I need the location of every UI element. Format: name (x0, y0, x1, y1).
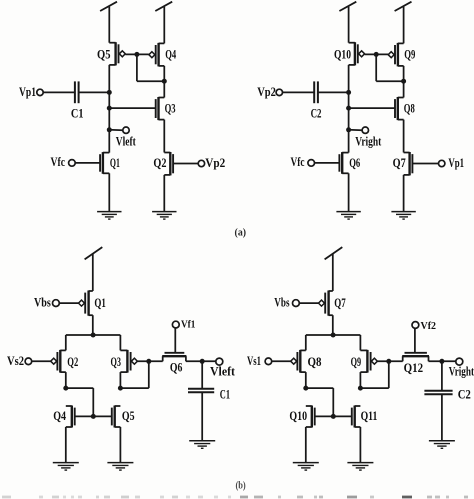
output terminal Vp2 (198, 156, 225, 170)
junction Q8 gate tap (346, 106, 351, 111)
transistor Q5 (109, 42, 125, 65)
wire gate of Q3 to Q6 (137, 360, 162, 362)
wire gate node down to drain of Q4 (137, 54, 164, 81)
wire Vp2 to capacitor C2 (283, 91, 315, 93)
label Q3 (111, 355, 122, 369)
junction Q3 drain node (118, 386, 123, 391)
power supply rail of circuit b-right (325, 247, 343, 291)
svg-text:Q8: Q8 (308, 355, 322, 369)
wire right rail Q9 drain to Q8 (403, 66, 405, 98)
junction Q8 drain node (303, 386, 308, 391)
capacitor C1 (188, 389, 214, 393)
label Q4 (165, 48, 177, 62)
label Q10 (334, 47, 351, 61)
label Q9 (351, 355, 362, 369)
wire Q5 source down (119, 427, 121, 463)
wire capacitor C2 to ground (441, 394, 443, 441)
svg-text:Q5: Q5 (122, 409, 135, 423)
svg-text:Q1: Q1 (94, 296, 106, 310)
wire gate of Q9 to Q12 (377, 360, 402, 362)
capacitor C1 (75, 81, 79, 103)
label Q11 (361, 409, 378, 423)
ground under Q1 (97, 212, 121, 220)
wire Vbs to gate of Q7 (299, 302, 318, 304)
junction mirror gate node (91, 414, 96, 419)
power supply rail of circuit b-left (85, 247, 103, 291)
label C2 (458, 388, 471, 402)
transistor Q3 (156, 97, 165, 120)
junction drain of Q4 (162, 79, 167, 84)
power supply rail (right) of circuit a-right (395, 2, 412, 44)
svg-text:Q7: Q7 (334, 296, 346, 310)
output terminal Vright (449, 358, 474, 379)
wire Vleft node down to capacitor C1 (201, 361, 203, 388)
label Q4 (53, 409, 66, 423)
svg-text:Vfc: Vfc (51, 155, 66, 169)
transistor Q2 (164, 152, 173, 175)
junction drain of Q9 (401, 79, 406, 84)
wire Q10 source down (305, 427, 307, 463)
input terminal Vp1 (19, 85, 43, 99)
input terminal Vfc of circuit a-left (51, 155, 76, 169)
label C2 (311, 107, 322, 121)
svg-text:Vp2: Vp2 (257, 85, 276, 99)
input terminal Vbs of circuit b-left (34, 295, 59, 309)
wire Q12 drain to Vright (429, 360, 456, 362)
wire Q7 source down (403, 175, 405, 212)
caption fragments (cut off at bottom edge) (2, 496, 468, 499)
svg-text:Vp2: Vp2 (205, 156, 225, 170)
wire mirror gates Q4 to Q5 (75, 415, 112, 417)
wire tap to gate of Q3 (109, 107, 155, 109)
junction Q3 gate node (146, 359, 151, 364)
caption (b) (235, 481, 246, 492)
terminal Vf1 (172, 320, 195, 331)
label Q1 (94, 296, 106, 310)
label Q8 (308, 355, 322, 369)
wire Vfc to gate of Q1 (75, 162, 100, 164)
ground under Q6 (336, 212, 360, 220)
junction Vright node (439, 359, 444, 364)
wire right rail Q8 to Q7 (403, 120, 405, 153)
wire Vs1 to gate of Q8 (272, 360, 291, 362)
svg-text:(a): (a) (235, 227, 247, 239)
power supply rail (right) of circuit a-left (155, 2, 172, 44)
wire Q3 drain down (119, 372, 121, 388)
output terminal Vleft (116, 127, 137, 148)
wire gate of Q7 to terminal Vp1 (412, 163, 438, 165)
transistor Q9 (388, 43, 403, 67)
junction Q9 gate node (386, 359, 391, 364)
svg-text:Q3: Q3 (165, 101, 176, 115)
label Q8 (404, 101, 415, 115)
ground under C2 (429, 441, 455, 449)
junction Q3 gate tap (107, 106, 112, 111)
transistor Q10 (306, 406, 315, 428)
label C1 (71, 107, 84, 121)
junction Vp1 node on left rail (107, 90, 112, 95)
junction gate node of Q5/Q4 (134, 52, 139, 57)
wire Q2 drain to mirror gate (66, 388, 94, 416)
wire left rail Q5 drain down to Q1 (108, 65, 110, 153)
transistor Q3 (120, 350, 137, 373)
svg-text:(b): (b) (235, 481, 246, 492)
svg-text:Q8: Q8 (404, 101, 415, 115)
svg-text:Q5: Q5 (97, 47, 111, 61)
input terminal Vp2 (257, 85, 282, 99)
output terminal Vp1 (439, 156, 465, 170)
wire Vp1 to capacitor C1 (43, 91, 75, 93)
svg-text:Vfc: Vfc (291, 155, 305, 169)
ground under Q5 (107, 463, 133, 471)
wire mirror gates Q10 to Q11 (315, 415, 352, 417)
wire Vright node down to capacitor C2 (441, 361, 443, 390)
transistor Q11 (352, 406, 361, 428)
wire capacitor C1 to left rail (79, 91, 110, 93)
wire Q1 drain to pair node (92, 315, 94, 335)
transistor Q7 (319, 291, 333, 316)
ground under Q2 (152, 212, 176, 220)
transistor Q1 (79, 291, 93, 316)
svg-text:Q4: Q4 (53, 409, 66, 423)
svg-text:Q9: Q9 (404, 48, 415, 62)
svg-text:Q7: Q7 (393, 156, 406, 170)
label Q6 (349, 156, 360, 170)
wire Q3 drain to gate node (120, 361, 148, 388)
wire Q4 source down (65, 427, 67, 463)
label C1 (220, 388, 230, 402)
input terminal Vs1 (247, 354, 272, 368)
junction tail node of Q2/Q3 (91, 333, 96, 338)
svg-text:Vs2: Vs2 (7, 354, 24, 368)
svg-text:Q2: Q2 (153, 156, 166, 170)
ground under C1 (189, 441, 215, 449)
label Q1 (110, 156, 120, 170)
terminal Vf2 (412, 321, 436, 332)
wire Q2 source down (163, 175, 165, 212)
junction mirror gate node (331, 414, 336, 419)
label Q12 (404, 361, 424, 375)
svg-text:Q3: Q3 (111, 355, 122, 369)
wire gate of Q2 to terminal Vp2 (173, 163, 198, 165)
label Q5 (122, 409, 135, 423)
wire Vbs to gate of Q1 (59, 302, 78, 304)
svg-text:C1: C1 (71, 107, 84, 121)
svg-text:Q6: Q6 (349, 156, 360, 170)
output terminal Vright (355, 127, 382, 148)
svg-text:Vp1: Vp1 (19, 85, 36, 99)
svg-text:C1: C1 (220, 388, 230, 402)
svg-text:Q6: Q6 (170, 361, 183, 375)
ground under Q11 (347, 463, 373, 471)
junction Vleft tap (107, 127, 112, 132)
svg-text:Vf2: Vf2 (421, 321, 437, 332)
wire Q6 drain to Vleft (186, 360, 216, 362)
junction Q2 drain node (63, 386, 68, 391)
svg-text:Q10: Q10 (334, 47, 351, 61)
power supply rail (left) of circuit a-left (100, 2, 117, 43)
junction Q9 drain node (358, 386, 363, 391)
input terminal Vs2 (7, 354, 32, 368)
label Q2 (153, 156, 166, 170)
label Q9 (404, 48, 415, 62)
input terminal Vfc of circuit a-right (291, 155, 315, 169)
wire Vfc to gate of Q6 (315, 162, 340, 164)
label Q5 (97, 47, 111, 61)
transistor Q7 (404, 152, 413, 175)
wire Q9 drain to gate node (360, 361, 388, 388)
capacitor C2 (424, 391, 452, 395)
wire pair source bus (66, 335, 121, 350)
input terminal Vbs of circuit b-right (274, 295, 299, 309)
label Q7 (334, 296, 346, 310)
wire capacitor C2 to left rail (318, 91, 349, 93)
svg-text:Vbs: Vbs (274, 295, 289, 309)
wire Vs2 to gate of Q2 (32, 360, 51, 362)
svg-text:C2: C2 (458, 388, 471, 402)
junction Vp2 node on left rail (346, 90, 351, 95)
transistor Q2 (51, 350, 66, 373)
svg-text:Vright: Vright (449, 365, 474, 379)
wire capacitor C1 to ground (201, 392, 203, 441)
wire gates of Q10 and Q9 (365, 53, 389, 55)
svg-text:Vright: Vright (355, 134, 382, 148)
wire left rail Q10 drain down to Q6 (348, 65, 350, 153)
transistor Q6 (162, 328, 186, 361)
junction gate node of Q10/Q9 (374, 52, 379, 57)
svg-text:Q12: Q12 (404, 361, 424, 375)
svg-text:Vleft: Vleft (116, 134, 137, 148)
svg-text:Vbs: Vbs (34, 295, 51, 309)
svg-text:Q10: Q10 (289, 409, 307, 423)
wire Q8 drain down (305, 372, 307, 388)
wire Q7 drain to pair node (332, 315, 334, 335)
label Q3 (165, 101, 176, 115)
wire Q8 drain to mirror gate (306, 388, 334, 416)
capacitor C2 (314, 81, 318, 103)
power supply rail (left) of circuit a-right (339, 2, 356, 43)
svg-text:Q2: Q2 (67, 355, 78, 369)
transistor Q8 (291, 350, 306, 373)
transistor Q4 (66, 406, 75, 428)
wire right rail Q4 drain to Q3 (163, 66, 165, 98)
wire Q11 source down (359, 427, 361, 463)
transistor Q10 (349, 42, 365, 65)
wire tap to gate of Q8 (349, 107, 395, 109)
wire pair source bus (306, 335, 361, 350)
label Q10 (289, 409, 307, 423)
wire tap to terminal Vright (349, 129, 363, 131)
output terminal Vleft (210, 358, 236, 378)
label Q6 (170, 361, 183, 375)
wire Q1 source down (108, 173, 110, 211)
label Q2 (67, 355, 78, 369)
transistor Q8 (395, 97, 404, 120)
svg-text:Vs1: Vs1 (247, 354, 261, 368)
svg-text:Vp1: Vp1 (448, 156, 464, 170)
svg-text:Vleft: Vleft (210, 364, 236, 378)
transistor Q12 (402, 329, 429, 362)
ground under Q7 (391, 212, 415, 220)
transistor Q1 (100, 152, 109, 174)
svg-text:Vf1: Vf1 (181, 320, 195, 331)
svg-text:Q4: Q4 (165, 48, 177, 62)
svg-text:Q1: Q1 (110, 156, 120, 170)
junction Vright tap (346, 127, 351, 132)
wire Q6 source down (348, 173, 350, 211)
svg-text:C2: C2 (311, 107, 322, 121)
transistor Q4 (149, 43, 164, 67)
junction Vleft node (200, 359, 205, 364)
wire right rail Q3 to Q2 (163, 120, 165, 153)
transistor Q5 (112, 406, 121, 428)
wire gates of Q5 and Q4 (125, 53, 149, 55)
svg-text:Q9: Q9 (351, 355, 362, 369)
ground under Q4 (53, 463, 79, 471)
ground under Q10 (293, 463, 319, 471)
svg-text:Q11: Q11 (361, 409, 378, 423)
junction tail node of Q8/Q9 (331, 333, 336, 338)
wire Q2 drain down (65, 372, 67, 388)
transistor Q6 (339, 152, 348, 174)
wire tap to terminal Vleft (109, 129, 123, 131)
transistor Q9 (360, 350, 377, 373)
caption (a) (235, 227, 247, 239)
wire gate node down to drain of Q9 (376, 54, 403, 81)
label Q7 (393, 156, 406, 170)
wire Q9 drain down (359, 372, 361, 388)
